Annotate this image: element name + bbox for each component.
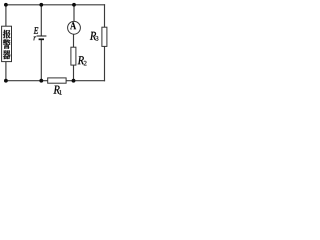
wire bottom rail left segment	[6, 80, 48, 82]
junction dot top battery node	[39, 3, 43, 7]
wire left upper segment	[5, 5, 7, 26]
label E emf	[34, 27, 39, 34]
wire right upper segment	[104, 5, 106, 27]
wire battery branch lower	[40, 40, 42, 81]
wire left lower segment	[5, 62, 7, 81]
battery E short thick plate	[39, 38, 44, 40]
label R1 subscript 1	[59, 90, 61, 94]
junction dot bottom battery node	[39, 79, 43, 83]
junction dot top ammeter node	[72, 3, 76, 7]
resistor R3 box	[102, 27, 107, 46]
label r internal resistance	[34, 36, 36, 40]
label R3 subscript 3	[96, 36, 99, 41]
label R2 letter R	[78, 56, 84, 64]
wire battery branch upper	[40, 5, 42, 36]
alarm text char 报	[3, 30, 11, 39]
alarm text char 警	[3, 39, 10, 48]
alarm text char 器	[3, 50, 10, 59]
wire right lower segment	[104, 46, 106, 80]
resistor R1 box	[48, 78, 66, 83]
ammeter circle	[68, 21, 81, 34]
junction dot bottom-left	[4, 79, 8, 83]
junction dot top-left	[4, 3, 8, 7]
wire top rail	[6, 4, 105, 6]
wire bottom rail right segment	[66, 80, 104, 82]
wire R2 to bottom rail	[73, 65, 75, 81]
label R3 letter R	[90, 32, 96, 40]
resistor R2 box	[71, 47, 76, 65]
alarm device box	[2, 26, 12, 61]
junction dot bottom R2 node	[72, 79, 76, 83]
label R1 letter R	[54, 86, 60, 94]
wire ammeter branch upper	[73, 5, 75, 22]
ammeter letter A	[70, 22, 76, 29]
wire ammeter to R2	[73, 34, 75, 47]
battery E long plate	[37, 35, 47, 37]
label R2 subscript 2	[84, 61, 87, 66]
